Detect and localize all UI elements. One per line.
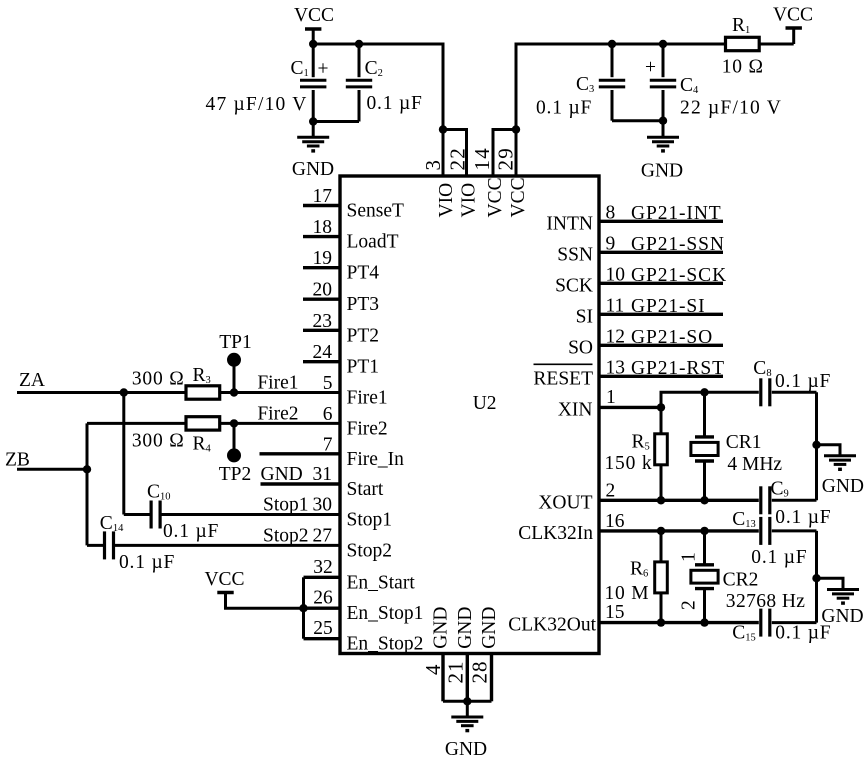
capacitor C15: [761, 609, 770, 637]
svg-text:TP1: TP1: [219, 332, 252, 353]
value 10 Ohm (R1): [722, 57, 764, 78]
resistor R1: [726, 37, 794, 50]
label C9: [771, 478, 789, 499]
pin name VCC (14): [485, 177, 506, 217]
svg-text:Fire2: Fire2: [257, 403, 298, 424]
svg-text:1: 1: [679, 552, 700, 562]
svg-text:0.1 µF: 0.1 µF: [775, 507, 831, 528]
wire ZB: [17, 468, 87, 471]
net label GP21-SI: [631, 296, 706, 317]
junction ZB branch: [83, 465, 91, 473]
net label GND (crystal upper): [822, 476, 864, 497]
junction CR2 bottom: [700, 618, 708, 626]
pin number 31: [313, 464, 333, 485]
net label Stop1: [263, 495, 309, 516]
svg-text:Fire1: Fire1: [257, 373, 298, 394]
svg-text:30: 30: [313, 495, 333, 516]
pin name GND (4): [431, 607, 452, 649]
label TP2: [219, 464, 252, 485]
svg-text:PT4: PT4: [347, 263, 380, 284]
label CR1: [726, 432, 762, 453]
svg-text:32: 32: [313, 557, 333, 578]
polarity + (C1): [318, 59, 329, 80]
pin 17 (SenseT) stub: [303, 204, 340, 207]
net label GND (Start): [261, 464, 303, 485]
wire rail CLK32: [815, 531, 818, 623]
net label GP21-SSN: [631, 234, 725, 255]
IC U2 body: [340, 176, 599, 654]
svg-text:Stop2: Stop2: [263, 525, 309, 546]
pin number 2: [606, 480, 616, 501]
crystal pin label 2 (CR2): [679, 600, 700, 610]
svg-text:19: 19: [313, 248, 333, 269]
svg-text:2: 2: [606, 480, 616, 501]
resistor R6: [655, 531, 668, 623]
svg-text:GP21-SI: GP21-SI: [631, 296, 706, 317]
svg-text:Fire_In: Fire_In: [347, 449, 405, 470]
pin number 27: [313, 525, 333, 546]
pin name VIO (3): [436, 183, 457, 218]
svg-text:En_Stop2: En_Stop2: [347, 634, 424, 655]
svg-text:6: 6: [323, 404, 333, 425]
svg-text:1: 1: [606, 387, 616, 408]
net label GND (top left): [292, 159, 334, 180]
wire pin 14 branch: [493, 130, 516, 177]
pin number 11: [606, 295, 625, 316]
svg-text:PT2: PT2: [347, 325, 380, 346]
label R1: [732, 15, 750, 36]
reference U2: [473, 393, 497, 414]
net label GP21-INT: [631, 203, 722, 224]
svg-text:3: 3: [421, 160, 445, 171]
pin name XOUT: [538, 492, 592, 513]
net label GND (bottom): [445, 739, 487, 760]
svg-text:U2: U2: [473, 393, 497, 414]
svg-text:150 k: 150 k: [605, 453, 653, 474]
svg-text:CR1: CR1: [726, 432, 762, 453]
net label GP21-SCK: [631, 265, 727, 286]
svg-text:Stop2: Stop2: [347, 540, 393, 561]
svg-text:13: 13: [606, 357, 626, 378]
svg-text:GP21-SCK: GP21-SCK: [631, 265, 727, 286]
svg-text:12: 12: [606, 326, 626, 347]
pin 7 (Fire_In) stub: [260, 452, 341, 455]
pin number 23: [313, 311, 333, 332]
wire C3-C4 bottom: [612, 119, 663, 122]
svg-text:XIN: XIN: [558, 399, 593, 420]
net label ZA: [19, 370, 45, 391]
wire XIN top run: [661, 392, 759, 407]
label C10: [147, 482, 171, 503]
label C3: [576, 74, 594, 95]
pin name XIN: [558, 399, 593, 420]
svg-text:16: 16: [605, 511, 625, 532]
power flag VCC (En): [217, 593, 303, 609]
svg-text:10: 10: [606, 264, 626, 285]
pin number 28: [468, 661, 492, 684]
net label Fire1: [257, 373, 298, 394]
svg-text:LoadT: LoadT: [347, 232, 399, 253]
svg-text:GND: GND: [292, 159, 334, 180]
svg-text:PT1: PT1: [347, 357, 380, 378]
pin number 5: [323, 373, 333, 394]
svg-text:0.1 µF: 0.1 µF: [119, 552, 175, 573]
svg-text:VCC: VCC: [773, 5, 813, 26]
svg-text:SCK: SCK: [555, 275, 593, 296]
pin name Start: [347, 479, 384, 500]
pin 11 (SI) stub: [599, 313, 723, 316]
junction R6 bottom: [657, 618, 665, 626]
label R6: [630, 559, 648, 580]
test point TP2: [227, 423, 241, 462]
junction pins 14/29 branch: [512, 125, 520, 133]
net label GP21-RST: [631, 358, 725, 379]
pin number 17: [313, 186, 333, 207]
value 0.1 uF (C15): [775, 623, 831, 644]
svg-text:47 µF/10 V: 47 µF/10 V: [206, 94, 308, 115]
svg-text:VCC: VCC: [485, 177, 506, 217]
label C4: [680, 75, 699, 96]
label C15: [732, 623, 756, 644]
wire GND tie: [443, 700, 492, 703]
pin 1 (XIN) stub: [599, 406, 661, 409]
pin number 18: [313, 217, 333, 238]
pin 9 (SSN) stub: [599, 251, 723, 254]
value 0.1 uF (C3): [536, 98, 592, 119]
junction C4 bottom: [659, 117, 667, 125]
junction GND tie: [463, 697, 471, 705]
crystal pin label 1 (CR2): [679, 552, 700, 562]
pin name Fire1: [347, 388, 388, 409]
wire ZA riser: [122, 393, 125, 515]
value 300 Ohm (R4): [132, 431, 185, 452]
crystal CR2: [691, 531, 718, 623]
label R5: [632, 432, 650, 453]
net label Stop2: [263, 525, 309, 546]
svg-text:INTN: INTN: [546, 213, 593, 234]
svg-text:GP21-SO: GP21-SO: [631, 327, 713, 348]
pin number 20: [313, 280, 333, 301]
pin 2 (XOUT) stub: [599, 499, 817, 502]
svg-text:GP21-SSN: GP21-SSN: [631, 234, 725, 255]
svg-text:Fire2: Fire2: [347, 418, 388, 439]
pin 19 (PT4) stub: [303, 266, 340, 269]
net label Fire2: [257, 403, 298, 424]
pin number 25: [313, 618, 333, 639]
pin name Stop2: [347, 540, 393, 561]
pin name Fire_In: [347, 449, 405, 470]
pin name VIO (22): [459, 183, 480, 218]
svg-text:22 µF/10 V: 22 µF/10 V: [680, 98, 782, 119]
pin 26 (En_Stop1) stub: [304, 607, 341, 610]
junction C1 top: [309, 40, 317, 48]
svg-text:300 Ω: 300 Ω: [132, 369, 185, 390]
pin name Stop1: [347, 510, 393, 531]
pin name En_Stop1: [347, 603, 424, 624]
pin number 21: [443, 661, 467, 684]
svg-text:25: 25: [313, 618, 333, 639]
value 32768 Hz (CR2): [726, 591, 806, 612]
resistor R5: [655, 407, 668, 500]
capacitor C2: [346, 44, 372, 122]
svg-text:VCC: VCC: [294, 5, 334, 26]
pin number 9: [606, 233, 616, 254]
svg-text:27: 27: [313, 525, 333, 546]
svg-text:+: +: [645, 57, 656, 78]
svg-text:31: 31: [313, 464, 333, 485]
pin name PT1: [347, 357, 380, 378]
pin number 7: [323, 434, 333, 455]
label R3: [193, 365, 211, 386]
pin 15 (CLK32Out) stub: [599, 621, 817, 624]
svg-text:GND: GND: [431, 607, 452, 649]
value 4 MHz (CR1): [727, 454, 782, 475]
pin name SI: [576, 306, 593, 327]
pin number 14: [470, 147, 494, 170]
svg-text:9: 9: [606, 233, 616, 254]
junction C4 top: [659, 40, 667, 48]
net label VCC (top right): [773, 5, 813, 26]
svg-text:SO: SO: [568, 337, 593, 358]
junction GND tap lower: [812, 574, 820, 582]
value 0.1 uF (C8): [775, 371, 831, 392]
capacitor C9: [761, 486, 770, 514]
svg-text:Fire1: Fire1: [347, 388, 388, 409]
svg-text:18: 18: [313, 217, 333, 238]
label TP1: [219, 332, 252, 353]
resistor R3: [186, 386, 220, 399]
capacitor C8: [761, 378, 770, 406]
pin 21 (GND) stub: [466, 654, 469, 702]
svg-text:23: 23: [313, 311, 333, 332]
pin number 10: [606, 264, 626, 285]
label CR2: [723, 570, 759, 591]
svg-text:CLK32In: CLK32In: [518, 523, 593, 544]
pin number 29: [493, 147, 517, 170]
svg-text:+: +: [318, 59, 329, 80]
ground C1/C2: [297, 122, 329, 153]
junction En_Stop1: [299, 604, 307, 612]
svg-text:GND: GND: [822, 476, 864, 497]
junction ZA branch: [120, 388, 128, 396]
pin 24 (PT1) stub: [303, 360, 340, 363]
pin name En_Stop2: [347, 634, 424, 655]
wire R3 to pin 5: [220, 391, 340, 394]
pin 12 (SO) stub: [599, 344, 723, 347]
svg-text:24: 24: [313, 342, 333, 363]
label C14: [100, 513, 124, 534]
net label GP21-SO: [631, 327, 713, 348]
svg-text:SI: SI: [576, 306, 593, 327]
junction R5 bottom: [657, 496, 665, 504]
svg-text:CR2: CR2: [723, 570, 759, 591]
pin name CLK32Out: [508, 615, 596, 636]
capacitor C13: [761, 517, 770, 545]
net label VCC (En): [204, 569, 244, 590]
svg-text:Start: Start: [347, 479, 384, 500]
svg-text:CLK32Out: CLK32Out: [508, 615, 596, 636]
value 0.1 uF (C10): [163, 521, 219, 542]
wire C8 to rail: [772, 391, 817, 394]
pin name LoadT: [347, 232, 399, 253]
pin number 8: [606, 202, 616, 223]
svg-text:SenseT: SenseT: [347, 201, 404, 222]
svg-text:14: 14: [470, 147, 494, 170]
pin name CLK32In: [518, 523, 593, 544]
svg-text:GND: GND: [821, 606, 863, 627]
svg-text:En_Stop1: En_Stop1: [347, 603, 424, 624]
svg-text:4: 4: [421, 664, 445, 675]
svg-text:RESET: RESET: [533, 368, 593, 389]
svg-text:Stop1: Stop1: [347, 510, 393, 531]
pin 8 (INTN) stub: [599, 220, 723, 223]
svg-text:21: 21: [443, 661, 467, 684]
label C1: [291, 58, 309, 79]
svg-text:0.1 µF: 0.1 µF: [536, 98, 592, 119]
pin 31 (Start) stub: [261, 482, 341, 485]
pin name Fire2: [347, 418, 388, 439]
junction TP1 tap: [230, 388, 238, 396]
pin 32 (En_Start) stub: [304, 576, 341, 579]
wire C1-C2 bottom: [313, 120, 359, 123]
svg-text:22: 22: [445, 147, 469, 170]
svg-text:VCC: VCC: [508, 177, 529, 217]
pin number 1: [606, 387, 616, 408]
pin number 3: [421, 160, 445, 171]
pin number 12: [606, 326, 626, 347]
svg-text:4 MHz: 4 MHz: [727, 454, 782, 475]
svg-text:8: 8: [606, 202, 616, 223]
svg-text:11: 11: [606, 295, 625, 316]
pin 4 (GND) stub: [441, 654, 444, 702]
junction C3 top: [608, 40, 616, 48]
crystal CR1: [691, 392, 718, 500]
label C13: [732, 509, 756, 530]
resistor R4: [186, 417, 220, 430]
svg-text:0.1 µF: 0.1 µF: [367, 93, 423, 114]
junction TP2 tap: [230, 419, 238, 427]
pin name En_Start: [347, 572, 416, 593]
pin name PT4: [347, 263, 380, 284]
pin number 24: [313, 342, 333, 363]
pin number 19: [313, 248, 333, 269]
pin 25 (En_Stop2) stub: [304, 637, 341, 640]
wire VCC rail to pin 3: [313, 44, 443, 176]
junction pins 3/22 branch: [439, 125, 447, 133]
pin name GND (21): [455, 607, 476, 649]
pin number 6: [323, 404, 333, 425]
capacitor C10: [151, 501, 160, 529]
label R4: [193, 434, 212, 455]
svg-text:GND: GND: [455, 607, 476, 649]
svg-text:GND: GND: [445, 739, 487, 760]
svg-text:PT3: PT3: [347, 294, 380, 315]
test point TP1: [227, 353, 241, 393]
junction CR1 bottom: [700, 496, 708, 504]
power flag VCC (top left): [305, 29, 321, 44]
pin name SCK: [555, 275, 593, 296]
svg-text:VIO: VIO: [436, 183, 457, 218]
capacitor C1: [300, 44, 326, 122]
polarity + (C4): [645, 57, 656, 78]
net label GND (crystal lower): [821, 606, 863, 627]
pin name RESET (active low): [533, 364, 593, 389]
value 47 uF/10 V (C1): [206, 94, 308, 115]
value 0.1 uF (C9): [775, 507, 831, 528]
value 0.1 uF (C2): [367, 93, 423, 114]
ground (chip): [451, 701, 483, 732]
wire VCC rail to pin 29: [516, 44, 726, 176]
label C8: [753, 358, 771, 379]
label C2: [365, 58, 383, 79]
pin 20 (PT3) stub: [303, 298, 340, 301]
svg-text:17: 17: [313, 186, 333, 207]
net label ZB: [5, 450, 30, 471]
ground crystal lower: [817, 578, 860, 605]
svg-text:15: 15: [605, 602, 625, 623]
junction CR2 top: [700, 527, 708, 535]
pin name SO: [568, 337, 593, 358]
pin number 26: [313, 588, 333, 609]
svg-text:GND: GND: [641, 161, 683, 182]
svg-text:ZA: ZA: [19, 370, 45, 391]
svg-text:VIO: VIO: [459, 183, 480, 218]
svg-text:10 Ω: 10 Ω: [722, 57, 764, 78]
pin name VCC (29): [508, 177, 529, 217]
pin number 30: [313, 495, 333, 516]
svg-text:XOUT: XOUT: [538, 492, 592, 513]
svg-text:0.1 µF: 0.1 µF: [751, 547, 807, 568]
value 0.1 uF (C13): [751, 547, 807, 568]
wire Stop2: [87, 544, 340, 547]
pin number 13: [606, 357, 626, 378]
value 10 M (R6): [605, 583, 650, 604]
svg-text:TP2: TP2: [219, 464, 252, 485]
value 0.1 uF (C14): [119, 552, 175, 573]
svg-text:28: 28: [468, 661, 492, 684]
pin name SenseT: [347, 201, 404, 222]
pin 18 (LoadT) stub: [303, 235, 340, 238]
pin number 15: [605, 602, 625, 623]
power flag VCC (top right): [786, 28, 802, 44]
svg-text:32768 Hz: 32768 Hz: [726, 591, 806, 612]
pin name INTN: [546, 213, 593, 234]
pin 10 (SCK) stub: [599, 282, 723, 285]
svg-text:ZB: ZB: [5, 450, 30, 471]
junction R6 top: [657, 527, 665, 535]
svg-text:2: 2: [679, 600, 700, 610]
svg-text:VCC: VCC: [204, 569, 244, 590]
pin number 16: [605, 511, 625, 532]
value 22 uF/10 V (C4): [680, 98, 782, 119]
svg-text:5: 5: [323, 373, 333, 394]
pin name PT2: [347, 325, 380, 346]
pin 23 (PT2) stub: [303, 329, 340, 332]
junction C1 bottom: [309, 117, 317, 125]
wire R4 to pin 6: [220, 422, 340, 425]
svg-text:En_Start: En_Start: [347, 572, 416, 593]
capacitor C4: [650, 44, 676, 121]
svg-text:Stop1: Stop1: [263, 495, 309, 516]
svg-text:29: 29: [493, 147, 517, 170]
pin number 32: [313, 557, 333, 578]
capacitor C14: [105, 531, 114, 559]
pin 13 (RESET) stub: [599, 375, 723, 378]
svg-text:GP21-RST: GP21-RST: [631, 358, 725, 379]
ground crystal upper: [817, 445, 857, 471]
svg-text:0.1 µF: 0.1 µF: [163, 521, 219, 542]
svg-text:10 M: 10 M: [605, 583, 650, 604]
